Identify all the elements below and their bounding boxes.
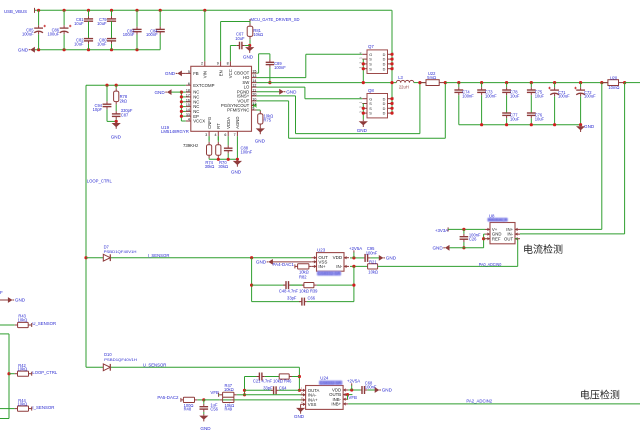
junction output rail xyxy=(600,81,603,84)
capacitor C82 xyxy=(74,38,93,50)
junction VBUS rail xyxy=(203,9,206,12)
junction feedback IN- xyxy=(352,265,355,268)
junction Q8 drain xyxy=(390,112,393,115)
wire output rail xyxy=(445,82,608,84)
svg-text:D: D xyxy=(383,67,386,71)
junction GND rail xyxy=(135,48,138,51)
junction GND rail xyxy=(110,48,113,51)
wire U24 VDD xyxy=(348,389,361,391)
svg-text:C66: C66 xyxy=(308,296,316,301)
wire EN to R81 xyxy=(221,21,250,23)
wire U_SENSOR xyxy=(111,366,299,368)
wire +2V5A drop xyxy=(353,252,355,258)
wire CNFG xyxy=(208,136,210,140)
svg-text:G: G xyxy=(369,53,372,57)
junction C89/SW xyxy=(268,81,271,84)
junction NC tie xyxy=(180,100,183,103)
resistor R78 xyxy=(114,85,128,108)
junction R42 tap xyxy=(7,372,10,375)
wire LO xyxy=(257,86,305,88)
junction Q7 drain xyxy=(390,62,393,65)
svg-text:14: 14 xyxy=(186,108,190,112)
svg-text:PSBD1QF40V1H: PSBD1QF40V1H xyxy=(104,249,137,254)
svg-text:L3: L3 xyxy=(398,75,403,80)
capacitor C89 xyxy=(266,54,287,83)
svg-text:10uF: 10uF xyxy=(535,116,545,121)
svg-text:100nF: 100nF xyxy=(274,65,286,70)
svg-text:GND: GND xyxy=(294,414,305,419)
junction NC tie xyxy=(180,91,183,94)
junction C72 gnd xyxy=(579,123,582,126)
wire ISNS+ sense up xyxy=(419,83,421,134)
wire to R44 xyxy=(0,408,12,410)
wire VBUS/drain vertical xyxy=(391,10,393,113)
svg-text:10uF: 10uF xyxy=(235,36,245,41)
junction Q7 source/SW xyxy=(362,81,365,84)
junction VBUS rail xyxy=(110,9,113,12)
resistor R42 xyxy=(9,363,32,376)
capacitor C80 xyxy=(97,38,116,50)
svg-text:10: 10 xyxy=(252,98,256,102)
wire VCC vertical xyxy=(229,46,231,62)
junction VBUS rail xyxy=(37,9,40,12)
junction GND rail xyxy=(37,48,40,51)
junction ISNS+ tap xyxy=(418,81,421,84)
svg-text:REF: REF xyxy=(492,236,501,241)
junction VBUS rail xyxy=(87,9,90,12)
resistor R81 xyxy=(247,22,263,42)
svg-text:INA181A1_R: INA181A1_R xyxy=(488,217,507,222)
net tick I_SENSOR r44 xyxy=(31,407,33,411)
svg-text:10uF: 10uF xyxy=(535,93,545,98)
wire ISNS+ xyxy=(257,95,296,97)
svg-text:电流检测: 电流检测 xyxy=(523,243,563,256)
junction output gnd rail xyxy=(530,123,533,126)
junction Q7 drain xyxy=(390,58,393,61)
svg-text:VFB: VFB xyxy=(348,395,357,400)
svg-text:12: 12 xyxy=(252,84,256,88)
svg-text:PSBD1QF40V1H: PSBD1QF40V1H xyxy=(104,357,137,362)
wire NC tie vertical xyxy=(180,92,182,121)
junction C94 xyxy=(105,84,108,87)
svg-text:D: D xyxy=(383,53,386,57)
wire to R43 xyxy=(0,324,12,326)
ground output caps xyxy=(576,124,595,132)
svg-text:PA4-DAC1: PA4-DAC1 xyxy=(273,262,295,267)
svg-text:PA0_ADCIN0: PA0_ADCIN0 xyxy=(479,262,502,267)
capacitor C78 xyxy=(502,83,520,113)
junction VBUS rail xyxy=(63,9,66,12)
svg-text:8: 8 xyxy=(227,62,229,66)
svg-text:R75: R75 xyxy=(264,118,272,123)
svg-text:FB: FB xyxy=(193,71,199,76)
junction fb2 branch1 right xyxy=(298,375,301,378)
junction +2V5A tap 2 xyxy=(350,388,353,391)
junction NC tie xyxy=(180,95,183,98)
junction +2V5A tap xyxy=(352,256,355,259)
svg-text:RT: RT xyxy=(216,123,221,129)
wire Q8 source tie xyxy=(362,104,364,120)
ground U23 VSS xyxy=(256,259,311,265)
net tick LOOP_CTRL r42 xyxy=(31,372,33,376)
svg-text:LOOP_CTRL: LOOP_CTRL xyxy=(32,370,57,375)
svg-text:R49: R49 xyxy=(225,407,233,412)
U24 part number xyxy=(319,380,343,385)
net tick +2V5A 2 xyxy=(351,383,353,385)
svg-text:IN+: IN+ xyxy=(318,264,326,269)
junction GND rail xyxy=(63,48,66,51)
ground input bank xyxy=(18,47,35,53)
wire CBOOT to C89 xyxy=(259,53,270,55)
wire R81 to gnd node xyxy=(249,41,251,46)
junction D7 tap xyxy=(84,256,87,259)
svg-text:GND: GND xyxy=(15,298,26,303)
transistor Q8 xyxy=(358,88,394,118)
junction Q8 drain xyxy=(390,107,393,110)
ground AGND xyxy=(231,159,242,174)
capacitor C64 xyxy=(263,385,287,394)
resistor R47 xyxy=(219,383,245,397)
junction NC tie xyxy=(180,105,183,108)
wire U8 gnd run xyxy=(450,247,484,249)
diode D10 xyxy=(103,352,137,371)
wire CBOOT xyxy=(257,72,259,74)
wire output gnd rail xyxy=(459,124,581,126)
resistor R44 xyxy=(12,398,32,411)
svg-text:+2V5A: +2V5A xyxy=(349,246,362,251)
U23 part number xyxy=(317,271,341,276)
wire U8 IN- sense xyxy=(520,233,625,235)
net tick MCU_GATE_DRIVER_SD xyxy=(249,19,251,24)
no-connect PG/SYNCOUT xyxy=(253,104,257,108)
svg-text:100nF: 100nF xyxy=(241,149,253,154)
ground C95 xyxy=(379,255,397,261)
junction drain/SW xyxy=(390,81,393,84)
wire agnd rail xyxy=(209,158,237,160)
transistor Q7 xyxy=(358,44,394,73)
svg-text:15: 15 xyxy=(252,70,256,74)
U19 pin numbers xyxy=(186,62,257,138)
wire INB- tie xyxy=(347,395,349,400)
resistor R48 xyxy=(181,397,204,411)
svg-text:GND: GND xyxy=(243,54,254,59)
resistor R43 xyxy=(12,314,32,328)
wire HO to Q7 gate xyxy=(306,53,363,55)
capacitor C48 xyxy=(283,281,304,289)
svg-text:INB+: INB+ xyxy=(331,402,341,407)
U23 pins xyxy=(312,255,350,269)
wire USB_VBUS rail xyxy=(35,9,392,11)
ground below R81 xyxy=(243,46,254,60)
shunt U22 xyxy=(420,80,445,86)
svg-text:100uF: 100uF xyxy=(558,94,570,99)
capacitor C66 xyxy=(287,296,316,306)
junction fb branch1 left xyxy=(250,284,253,287)
wire U8 OUT xyxy=(515,238,518,240)
resistor R82 xyxy=(295,264,311,280)
capacitor C81 xyxy=(74,10,93,25)
svg-text:100uF: 100uF xyxy=(47,31,59,36)
svg-text:14: 14 xyxy=(252,79,256,83)
wire Q7 source tie xyxy=(362,59,364,83)
U19 pin names xyxy=(193,69,250,129)
svg-text:U_SENSOR: U_SENSOR xyxy=(143,362,167,367)
svg-text:10kΩ: 10kΩ xyxy=(18,367,28,372)
svg-text:VFB: VFB xyxy=(210,390,219,395)
svg-text:F: F xyxy=(0,290,3,295)
svg-text:10uF: 10uF xyxy=(510,93,520,98)
svg-text:C21 4.7nF 10kΩ R46: C21 4.7nF 10kΩ R46 xyxy=(253,378,292,383)
resistor R70 xyxy=(216,136,228,169)
svg-text:9: 9 xyxy=(217,62,219,66)
svg-text:GND: GND xyxy=(382,388,393,393)
wire fb branch2 a xyxy=(252,301,301,303)
capacitor C94 xyxy=(93,85,112,121)
svg-text:GND: GND xyxy=(154,90,165,95)
junction fb2 branch2 left xyxy=(243,389,246,392)
svg-text:D: D xyxy=(383,107,386,111)
svg-text:LOOP_CTRL: LOOP_CTRL xyxy=(87,179,112,185)
wire input GND rail xyxy=(35,49,160,51)
capacitor C67 xyxy=(230,32,249,50)
svg-text:VDDA: VDDA xyxy=(226,117,231,129)
junction C88 gnd xyxy=(227,158,230,161)
svg-text:33pF: 33pF xyxy=(263,385,273,390)
svg-text:10kΩ: 10kΩ xyxy=(18,317,28,322)
svg-text:30kΩ: 30kΩ xyxy=(218,164,228,169)
wire NC bridges xyxy=(181,92,185,121)
svg-text:PFM/SYNC: PFM/SYNC xyxy=(227,108,249,113)
wire U8 OUT drop xyxy=(517,239,519,267)
capacitor C88 xyxy=(224,136,253,159)
ground C87 xyxy=(111,121,122,139)
wire R49 out xyxy=(234,399,306,401)
ground PGND xyxy=(279,89,297,95)
junction output rail xyxy=(530,81,533,84)
junction Q7 drain xyxy=(390,53,393,56)
wire fb right vertical xyxy=(353,266,355,301)
wire fb left vertical xyxy=(251,258,253,302)
svg-text:CNFG: CNFG xyxy=(207,116,212,129)
svg-text:7: 7 xyxy=(234,133,236,137)
junction REF tie xyxy=(482,237,485,240)
wire AGND xyxy=(236,136,238,159)
junction NC tie xyxy=(180,115,183,118)
svg-text:R82: R82 xyxy=(299,274,307,279)
ground NC pins xyxy=(154,89,171,95)
wire fb branch1 a xyxy=(252,284,285,286)
wire LOOP_CTRL vertical xyxy=(85,85,87,367)
wire PA2_ADCIN2 xyxy=(348,403,640,405)
svg-text:GND: GND xyxy=(386,256,397,261)
svg-text:13: 13 xyxy=(252,74,256,78)
diode D7 xyxy=(103,244,136,261)
svg-text:18: 18 xyxy=(186,89,190,93)
capacitor C74 xyxy=(454,83,474,125)
wire +3V3A to V+ xyxy=(448,228,485,230)
svg-text:GND: GND xyxy=(18,47,29,52)
wire OUTB xyxy=(348,394,352,396)
wire fb branch1 b xyxy=(290,284,304,286)
svg-text:GND: GND xyxy=(111,135,122,140)
svg-text:GND: GND xyxy=(286,89,297,94)
svg-text:10uF: 10uF xyxy=(510,116,520,121)
wire U23 IN- xyxy=(350,265,368,267)
svg-text:9: 9 xyxy=(252,107,254,111)
wire NC to GND xyxy=(172,91,182,93)
wire HO vertical xyxy=(305,54,307,77)
svg-text:16: 16 xyxy=(186,98,190,102)
resistor R74 xyxy=(205,136,215,169)
junction fb2 branch2 right xyxy=(298,389,301,392)
svg-text:Q8: Q8 xyxy=(368,88,374,93)
ground FB pin xyxy=(165,71,186,77)
wire C79-C80 xyxy=(111,21,113,38)
junction I_SENSOR node xyxy=(250,256,253,259)
wire LO vertical xyxy=(304,87,306,99)
svg-text:VSS: VSS xyxy=(308,402,317,407)
junction R81/C67/GND xyxy=(248,44,251,47)
svg-text:10kΩ: 10kΩ xyxy=(253,32,263,37)
op-amp U23 body xyxy=(317,253,345,272)
svg-text:100nF: 100nF xyxy=(462,93,474,98)
svg-text:R21: R21 xyxy=(369,259,377,264)
svg-text:C87: C87 xyxy=(121,112,129,117)
wire L3 to U22 xyxy=(414,82,426,84)
wire bracket top xyxy=(0,333,9,335)
svg-text:GND: GND xyxy=(584,124,595,129)
svg-text:U23: U23 xyxy=(317,248,326,253)
svg-text:100nF: 100nF xyxy=(123,32,135,37)
wire VIN xyxy=(204,10,206,61)
svg-text:5: 5 xyxy=(188,70,190,74)
wire CBOOT vertical xyxy=(258,54,260,73)
svg-text:GND: GND xyxy=(231,169,242,174)
junction C26 bottom xyxy=(462,246,465,249)
op-amp U8 body xyxy=(490,223,515,244)
wire fb2 left vertical xyxy=(244,377,246,395)
svg-text:PA5-DAC2: PA5-DAC2 xyxy=(157,395,179,400)
junction OUTB/INB- xyxy=(346,393,349,396)
ground edge xyxy=(0,297,26,303)
junction Q7 S2 xyxy=(362,62,365,65)
shunt U20 xyxy=(602,80,625,86)
junction Q8 drain xyxy=(390,97,393,100)
svg-text:2: 2 xyxy=(201,62,203,66)
svg-text:EN: EN xyxy=(218,70,223,76)
svg-text:GND: GND xyxy=(255,138,266,143)
svg-text:2kΩ: 2kΩ xyxy=(120,98,127,103)
wire INA- run xyxy=(245,394,306,396)
wire VOUT vertical xyxy=(288,101,290,138)
svg-text:D: D xyxy=(383,58,386,62)
svg-text:33: 33 xyxy=(186,113,190,117)
junction R78 xyxy=(115,84,118,87)
ground U8 xyxy=(432,245,449,251)
wire bracket vertical xyxy=(8,334,10,419)
capacitor C56 xyxy=(200,400,219,414)
svg-text:USB_VBUS: USB_VBUS xyxy=(4,9,27,15)
svg-text:U20: U20 xyxy=(610,75,618,80)
junction output rail xyxy=(457,81,460,84)
svg-text:D: D xyxy=(383,112,386,116)
junction AGND gnd xyxy=(236,158,239,161)
svg-text:100nF: 100nF xyxy=(366,250,378,255)
junction Q8 S3 xyxy=(362,112,365,115)
net tick +2V5A xyxy=(353,250,355,252)
ground R75 xyxy=(255,127,266,144)
capacitor C84 xyxy=(146,10,165,49)
svg-text:10uF: 10uF xyxy=(74,21,84,26)
svg-text:I_SENSOR: I_SENSOR xyxy=(148,253,170,258)
junction Q8 S2 xyxy=(362,107,365,110)
resistor R39 xyxy=(302,283,354,288)
ground U24 VSS xyxy=(294,404,305,419)
svg-text:3: 3 xyxy=(205,133,207,137)
junction NC tie xyxy=(180,110,183,113)
junction VBUS rail xyxy=(135,9,138,12)
capacitor C26 xyxy=(460,229,481,247)
ground Q8 source xyxy=(357,120,368,133)
resistor R21 xyxy=(368,259,378,274)
capacitor C79 xyxy=(97,10,116,25)
svg-text:AGND: AGND xyxy=(235,116,240,128)
wire U20 sense right xyxy=(624,83,626,234)
wire HO xyxy=(257,77,306,79)
capacitor C95 xyxy=(364,246,379,262)
svg-text:C56: C56 xyxy=(210,407,218,412)
svg-text:R48: R48 xyxy=(184,407,192,412)
wire to D7 xyxy=(86,257,103,259)
svg-text:U_SENSOR: U_SENSOR xyxy=(32,321,56,326)
wire U8 GND pin xyxy=(484,233,485,235)
net tick PA4-DAC1 xyxy=(294,264,296,268)
svg-text:C64: C64 xyxy=(279,385,287,390)
svg-text:+2V5A: +2V5A xyxy=(347,378,360,383)
wire EN vertical xyxy=(220,22,222,62)
net tick USB_VBUS xyxy=(34,8,36,13)
svg-text:15: 15 xyxy=(186,103,190,107)
junction C56 tap xyxy=(202,398,205,401)
junction output gnd rail xyxy=(553,123,556,126)
U8 pins xyxy=(485,227,520,241)
wire bracket bottom xyxy=(0,418,9,420)
resistor R46 xyxy=(279,374,299,379)
svg-text:I_SENSOR: I_SENSOR xyxy=(32,405,54,410)
svg-text:21: 21 xyxy=(252,102,256,106)
svg-text:Q7: Q7 xyxy=(368,44,374,49)
wire RT xyxy=(217,136,219,140)
wire VOUT sense run xyxy=(289,137,446,139)
wire SW rail xyxy=(257,82,397,84)
junction Q7 S3 xyxy=(362,67,365,70)
capacitor C21 xyxy=(256,373,279,381)
junction output rail xyxy=(480,81,483,84)
wire fb2 branch2 a xyxy=(245,389,273,391)
resistor R49 xyxy=(204,397,234,411)
svg-text:GND: GND xyxy=(357,128,368,133)
svg-text:10kΩ: 10kΩ xyxy=(224,387,234,392)
wire C94 to gnd node xyxy=(107,120,116,122)
wire U8 REF pin xyxy=(484,238,485,240)
svg-text:GND: GND xyxy=(200,426,211,431)
capacitor C73 xyxy=(477,83,497,125)
svg-text:G: G xyxy=(369,97,372,101)
svg-text:4: 4 xyxy=(215,133,217,137)
svg-text:PA2_ADCIN2: PA2_ADCIN2 xyxy=(466,398,492,403)
wire INB- pin xyxy=(347,398,350,400)
junction C26 top xyxy=(462,228,465,231)
